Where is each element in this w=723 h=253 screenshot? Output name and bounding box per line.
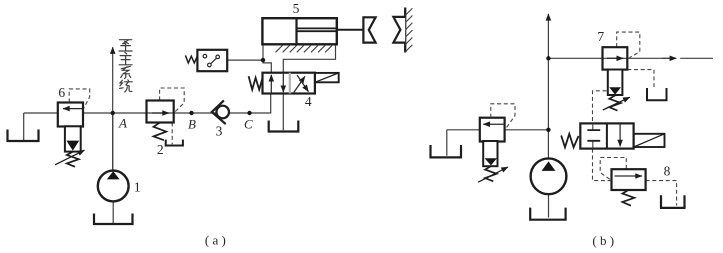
- valve 6 internal arrow: [63, 108, 83, 110]
- cylinder mounting hatch: [276, 45, 333, 52]
- valve b-left pilot poppet stage: [483, 141, 497, 166]
- wire main rail through valve 7: [548, 57, 713, 59]
- tank pump b: [530, 208, 565, 220]
- valve 2 spring: [154, 123, 167, 141]
- wire left relief valve to rail junction: [447, 130, 549, 156]
- node A: [111, 111, 115, 115]
- svg-text:A: A: [118, 116, 127, 131]
- pilot dashed valve 7: [617, 32, 640, 58]
- clamp jaw on wall: [393, 17, 405, 43]
- svg-text:C: C: [244, 117, 253, 132]
- cylinder 5 piston: [295, 18, 297, 44]
- tank valve 8: [661, 195, 685, 208]
- valve 6 adjustment arrow: [55, 150, 85, 165]
- remote control dashed valve 7 to solenoid valve: [593, 91, 607, 123]
- fixed wall: [404, 8, 406, 53]
- wire to-main-system vertical from node A with up arrow: [112, 47, 114, 170]
- valve 6 pilot poppet stage: [65, 126, 81, 151]
- tank pump 1: [94, 214, 133, 225]
- svg-text:5: 5: [293, 1, 300, 16]
- valve 4 right position crossed arrows: [294, 75, 309, 93]
- svg-text:( a ): ( a ): [205, 233, 226, 248]
- node junction left valve: [546, 128, 550, 132]
- svg-text:1: 1: [134, 179, 141, 194]
- wire main rail left of valve 6 to tank drop: [24, 113, 58, 141]
- node junction rail/valve7: [546, 56, 550, 60]
- solenoid valve coil: [634, 134, 665, 147]
- wire main rail A-B-C and up to valve 4: [83, 94, 271, 114]
- pump b: [531, 158, 567, 194]
- pressure switch: [197, 50, 227, 71]
- pump 1: [98, 171, 129, 202]
- valve b-left spring: [485, 166, 497, 181]
- valve 6 poppet cone: [66, 141, 79, 151]
- pilot dashed valve 8: [600, 158, 626, 181]
- valve 4 position divider: [289, 73, 291, 94]
- label 至主系统: [119, 40, 132, 92]
- relief valve 6 body: [58, 103, 83, 127]
- wire pump b suction: [548, 194, 550, 217]
- valve b-left poppet cone: [485, 158, 497, 165]
- tank valve 2 drain: [166, 140, 183, 146]
- cylinder 5 body: [262, 18, 336, 44]
- wire pump 1 to node A: [112, 113, 114, 171]
- valve b-left internal arrow: [483, 123, 504, 125]
- node C: [247, 111, 251, 115]
- solenoid valve spring: [561, 134, 578, 148]
- valve 2 internal arrow: [152, 112, 169, 114]
- valve b-left adjustment arrow: [478, 167, 508, 182]
- valve 8 spring: [622, 190, 634, 206]
- valve 4 solenoid: [315, 73, 339, 82]
- svg-text:7: 7: [597, 29, 604, 44]
- relief valve b-left body: [480, 118, 505, 142]
- dashed solenoid valve bottom to valve 8: [593, 149, 612, 181]
- svg-text:8: 8: [664, 164, 671, 179]
- directional valve 4 body: [263, 73, 315, 94]
- wire vertical pump line with up arrow: [547, 14, 549, 159]
- wire valve 4 T port to tank: [282, 94, 284, 131]
- svg-text:6: 6: [58, 85, 65, 100]
- solenoid valve 2/2 body: [580, 123, 633, 148]
- cylinder 5 rod: [297, 28, 337, 31]
- valve 7 spring: [609, 95, 621, 110]
- remote relief valve 8 body: [612, 169, 646, 190]
- svg-text:3: 3: [216, 123, 223, 138]
- tank valve 7 drain: [647, 88, 667, 100]
- solenoid valve flow arrow: [619, 123, 621, 146]
- svg-text:( b ): ( b ): [592, 233, 614, 248]
- clamp jaw on rod: [363, 17, 375, 42]
- sequence valve 2 body: [147, 101, 174, 123]
- svg-text:B: B: [188, 117, 196, 132]
- valve 7 internal arrow: [607, 57, 623, 59]
- drain dashed line valve 2: [171, 123, 173, 145]
- valve 4 spring: [249, 76, 263, 89]
- wall hatch: [405, 8, 412, 52]
- node B: [189, 111, 193, 115]
- tank valve 4: [269, 121, 299, 132]
- pilot dashed line valve 2: [160, 88, 185, 112]
- unloading valve 7 body: [603, 47, 628, 69]
- valve 4 left position arrows: [271, 73, 283, 94]
- wire cylinder rod port to valve 4 port B: [283, 44, 335, 72]
- wire pump 1 suction to tank: [112, 201, 114, 223]
- solenoid valve blocked ports: [592, 123, 594, 148]
- svg-text:2: 2: [157, 142, 164, 157]
- wire cylinder cap port to valve 4 port A: [263, 44, 271, 72]
- drain dashed valve 7 to tank: [627, 70, 654, 87]
- svg-text:4: 4: [305, 94, 312, 109]
- wire pressure switch to cap line: [227, 59, 263, 61]
- pressure switch spring: [185, 55, 197, 63]
- junction node cap line: [261, 58, 265, 62]
- valve 7 poppet cone: [609, 87, 621, 94]
- valve 7 adjustment arrow: [603, 97, 630, 110]
- valve 7 pilot poppet stage: [608, 70, 623, 96]
- check valve 3: [216, 106, 229, 119]
- tank b-left: [431, 145, 462, 157]
- flow arrow on rail: [662, 57, 676, 59]
- dashed valve 8 outlet to tank: [646, 181, 677, 206]
- valve 8 internal arrow: [615, 175, 643, 177]
- valve 6 spring: [67, 152, 79, 167]
- tank left of valve 6: [8, 130, 39, 142]
- pilot dashed line valve 6: [69, 89, 90, 108]
- pilot dashed valve b-left: [491, 104, 515, 129]
